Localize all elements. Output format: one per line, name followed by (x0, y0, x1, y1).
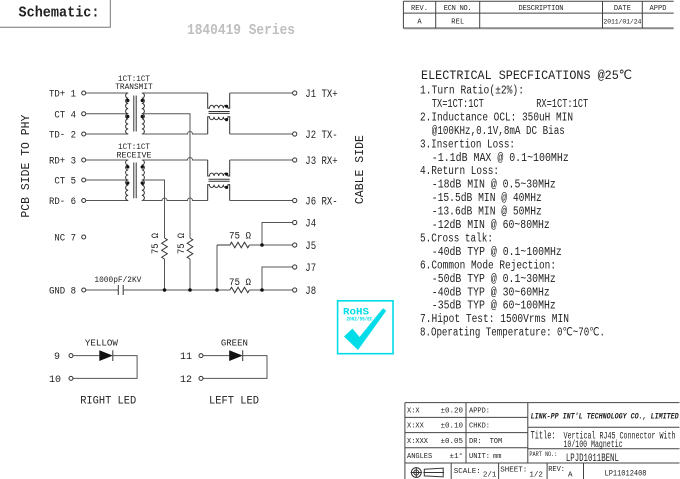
L1 phase dots (225, 105, 228, 108)
svg-text:±0.10: ±0.10 (440, 423, 463, 431)
svg-text:GND 8: GND 8 (49, 287, 76, 298)
wire D1 loop (73, 356, 137, 379)
svg-text:ECN NO.: ECN NO. (444, 5, 472, 13)
wire T1 secondary top to L1 (142, 92, 208, 94)
svg-text:1840419 Series: 1840419 Series (187, 22, 295, 39)
resistor R4 75ohm horizontal in bus (230, 287, 250, 293)
wire pin5 to T2 center tap (86, 179, 129, 181)
revision table (403, 1, 673, 28)
wire pin3 to T2 (86, 159, 129, 161)
svg-text:ELECTRICAL SPECFICATIONS @25℃: ELECTRICAL SPECFICATIONS @25℃ (421, 68, 632, 83)
svg-text:RD+ 3: RD+ 3 (49, 157, 76, 168)
svg-text:J2 TX-: J2 TX- (305, 130, 337, 142)
wire pin1 to T1 (86, 92, 129, 94)
svg-text:X:XXX: X:XXX (407, 438, 429, 446)
svg-text:RIGHT LED: RIGHT LED (80, 396, 136, 408)
svg-text:PCB SIDE TO PHY: PCB SIDE TO PHY (19, 115, 33, 218)
svg-text:-40dB TYP @ 0.1~100MHz: -40dB TYP @ 0.1~100MHz (432, 246, 562, 259)
svg-text:X:X: X:X (407, 408, 420, 416)
svg-text:7.Hipot Test: 1500Vrms MIN: 7.Hipot Test: 1500Vrms MIN (420, 313, 569, 326)
svg-text:DESCRIPTION: DESCRIPTION (519, 5, 564, 13)
svg-text:CT 4: CT 4 (54, 110, 76, 121)
svg-text:-15.5dB MIN @ 40MHz: -15.5dB MIN @ 40MHz (432, 192, 542, 205)
svg-text:TRANSMIT: TRANSMIT (115, 82, 153, 92)
J3 pin (293, 158, 297, 162)
svg-text:DATE: DATE (614, 5, 631, 13)
svg-text:2/1: 2/1 (483, 472, 497, 479)
svg-text:TX=1CT:1CT: TX=1CT:1CT (432, 98, 484, 111)
svg-text:1.Turn Ratio(±2%):: 1.Turn Ratio(±2%): (420, 85, 524, 98)
svg-text:J3 RX+: J3 RX+ (305, 156, 337, 168)
svg-text:75 Ω: 75 Ω (151, 233, 162, 254)
J8 pin (293, 288, 297, 292)
svg-text:SCALE:: SCALE: (454, 468, 481, 476)
svg-text:1000pF/2KV: 1000pF/2KV (94, 275, 142, 285)
svg-text:Schematic:: Schematic: (19, 5, 100, 22)
svg-text:REV:: REV: (548, 466, 565, 474)
svg-text:-13.6dB MIN @ 50MHz: -13.6dB MIN @ 50MHz (432, 206, 542, 219)
svg-text:YELLOW: YELLOW (85, 339, 119, 349)
svg-text:mm: mm (493, 453, 501, 461)
svg-text:X:XX: X:XX (407, 423, 425, 431)
wire R3 to J5 (249, 244, 292, 246)
svg-text:REV.: REV. (411, 5, 428, 13)
svg-text:RECEIVE: RECEIVE (117, 150, 152, 160)
svg-text:UNIT:: UNIT: (469, 453, 490, 461)
wire pin2 to T1 (86, 133, 129, 135)
choke L2 (208, 160, 230, 201)
svg-text:@100KHz,0.1V,8mA DC Bias: @100KHz,0.1V,8mA DC Bias (432, 125, 565, 138)
ground bus wire (123, 289, 230, 291)
svg-text:J6 RX-: J6 RX- (305, 196, 337, 208)
wire J8 node to J7 (262, 267, 293, 290)
svg-text:A: A (417, 19, 422, 27)
J7 pin (293, 265, 297, 269)
wire L2 to J3 (230, 159, 293, 161)
junction dots (163, 288, 167, 292)
svg-text:2011/01/24: 2011/01/24 (603, 19, 641, 26)
svg-text:Title:: Title: (531, 431, 556, 443)
wire T1 secondary bottom to L1 with hop (142, 132, 208, 135)
svg-text:3.Insertion Loss:: 3.Insertion Loss: (420, 138, 515, 151)
svg-text:PART NO.:: PART NO.: (529, 451, 557, 458)
svg-text:CT 5: CT 5 (54, 177, 76, 188)
svg-text:CHKD:: CHKD: (469, 423, 490, 431)
svg-text:12: 12 (180, 375, 192, 386)
wire bus to J8 (249, 289, 292, 291)
svg-text:RD- 6: RD- 6 (49, 197, 76, 208)
svg-text:SHEET:: SHEET: (500, 467, 527, 475)
svg-text:J8: J8 (305, 286, 316, 298)
svg-text:J4: J4 (305, 218, 316, 230)
svg-text:NC 7: NC 7 (54, 234, 76, 245)
svg-text:J7: J7 (305, 263, 316, 275)
svg-text:75 Ω: 75 Ω (177, 233, 188, 254)
svg-text:±1°: ±1° (449, 452, 463, 461)
projection symbol (411, 468, 421, 478)
RoHS logo (338, 301, 393, 354)
wire D2 loop (203, 356, 267, 379)
svg-text:75 Ω: 75 Ω (229, 278, 251, 289)
J1 pin (293, 91, 297, 95)
J2 pin (293, 132, 297, 136)
svg-text:±0.05: ±0.05 (440, 438, 463, 446)
wire T2 secondary bottom to L2 with hops (142, 198, 208, 200)
J4 pin (293, 220, 297, 224)
transformer T1 transmit (126, 93, 145, 134)
T2 phase dots (126, 165, 129, 168)
svg-text:4.Return Loss:: 4.Return Loss: (420, 165, 499, 178)
wire L1 to J2 (230, 133, 293, 135)
wire pin4 to T1 center tap (86, 113, 129, 115)
svg-text:5.Cross talk:: 5.Cross talk: (420, 233, 493, 246)
svg-text:-50dB TYP @ 0.1~30MHz: -50dB TYP @ 0.1~30MHz (432, 273, 556, 286)
J6 pin (293, 198, 297, 202)
wire T1 secondary center tap (142, 114, 190, 238)
LED D1 diode (73, 355, 99, 357)
schematic title box (0, 0, 110, 27)
svg-text:-1.1dB MAX @ 0.1~100MHz: -1.1dB MAX @ 0.1~100MHz (432, 152, 569, 165)
svg-text:TOM: TOM (490, 438, 503, 446)
resistor R2 75ohm vertical (187, 238, 193, 259)
L2 phase dots (225, 173, 228, 176)
svg-text:2002/95/EC: 2002/95/EC (347, 316, 374, 323)
svg-text:A: A (568, 472, 573, 479)
capacitor C1 1000pF/2KV (118, 285, 123, 295)
svg-text:10: 10 (49, 375, 61, 386)
svg-text:-12dB MIN @ 60~80MHz: -12dB MIN @ 60~80MHz (432, 219, 550, 232)
spec list (420, 85, 605, 340)
svg-text:10/100 Magnetic: 10/100 Magnetic (564, 439, 623, 451)
wire J5 node to J4 (262, 223, 293, 246)
svg-text:J5: J5 (305, 241, 316, 253)
svg-text:-18dB MIN @ 0.5~30MHz: -18dB MIN @ 0.5~30MHz (432, 179, 556, 192)
svg-text:RX=1CT:1CT: RX=1CT:1CT (536, 98, 588, 111)
wire L1 to J1 (230, 92, 293, 94)
svg-text:2.Inductance OCL: 350uH MIN: 2.Inductance OCL: 350uH MIN (420, 111, 573, 124)
svg-text:75 Ω: 75 Ω (229, 232, 251, 243)
svg-text:LPJD1011BENL: LPJD1011BENL (566, 453, 619, 465)
svg-text:LP11012408: LP11012408 (605, 469, 647, 479)
svg-text:LEFT LED: LEFT LED (209, 396, 259, 408)
svg-text:6.Common Mode Rejection:: 6.Common Mode Rejection: (420, 259, 556, 272)
svg-text:TD+ 1: TD+ 1 (49, 90, 76, 101)
svg-text:DR:: DR: (469, 438, 482, 446)
J5 pin (293, 243, 297, 247)
svg-text:1/2: 1/2 (529, 472, 543, 479)
wire T2 secondary top to L2 with hop (142, 158, 208, 161)
choke L1 (208, 93, 230, 134)
svg-text:±0.20: ±0.20 (440, 408, 463, 416)
wire T2 secondary center tap (142, 180, 165, 238)
svg-text:TD- 2: TD- 2 (49, 131, 76, 142)
svg-text:LINK-PP INT'L TECHNOLOGY CO.,: LINK-PP INT'L TECHNOLOGY CO., LIMITED (531, 412, 679, 422)
svg-text:-35dB TYP @ 60~100MHz: -35dB TYP @ 60~100MHz (432, 300, 556, 313)
svg-text:CABLE SIDE: CABLE SIDE (353, 135, 367, 204)
title block (405, 403, 680, 479)
svg-text:9: 9 (54, 352, 60, 363)
svg-text:ANGLES: ANGLES (407, 453, 432, 461)
transformer T2 receive (126, 160, 145, 200)
wire pin6 to T2 (86, 200, 129, 202)
svg-text:APPD:: APPD: (469, 408, 490, 416)
LED D2 diode (203, 355, 229, 357)
resistor R1 75ohm vertical (162, 238, 168, 259)
wire branch to J5 resistor (216, 245, 218, 290)
svg-text:GREEN: GREEN (221, 339, 248, 349)
svg-text:REL: REL (451, 19, 464, 27)
resistor R3 75ohm horizontal (217, 242, 249, 248)
wire pin8 to C1 (86, 289, 119, 291)
svg-text:8.Operating Temperature: 0℃~70: 8.Operating Temperature: 0℃~70℃. (420, 327, 605, 340)
wire L2 to J6 (230, 200, 293, 202)
svg-text:-40dB TYP @ 30~60MHz: -40dB TYP @ 30~60MHz (432, 286, 550, 299)
T1 phase dots (126, 99, 129, 102)
svg-text:11: 11 (180, 352, 192, 363)
svg-text:J1 TX+: J1 TX+ (305, 89, 337, 101)
svg-text:APPD: APPD (650, 5, 667, 13)
